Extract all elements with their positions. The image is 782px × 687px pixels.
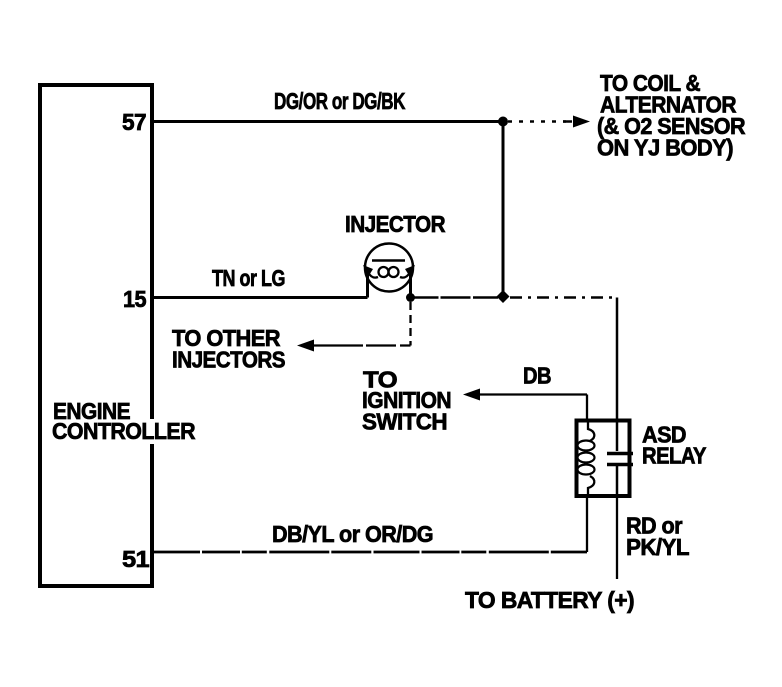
svg-text:RELAY: RELAY bbox=[642, 443, 706, 469]
svg-text:TN or LG: TN or LG bbox=[212, 265, 285, 291]
svg-text:DB/YL or OR/DG: DB/YL or OR/DG bbox=[272, 521, 433, 547]
relay contact bbox=[616, 420, 619, 451]
svg-text:DG/OR or DG/BK: DG/OR or DG/BK bbox=[274, 88, 406, 114]
wire dashed to coil arrow bbox=[508, 120, 566, 123]
svg-text:DB: DB bbox=[523, 363, 551, 389]
wire vertical drop to relay bbox=[616, 298, 619, 421]
injector coil bbox=[366, 268, 378, 278]
svg-text:INJECTORS: INJECTORS bbox=[172, 347, 285, 373]
engine controller label bbox=[148, 419, 198, 444]
wire relay contact to battery bbox=[616, 497, 618, 579]
svg-text:PK/YL: PK/YL bbox=[626, 534, 690, 560]
wire injector to junction bbox=[411, 296, 504, 299]
wire dashed junction to relay drop bbox=[510, 296, 617, 299]
wire relay coil to pin51 wire bbox=[586, 497, 588, 552]
wire pin57 horizontal bbox=[154, 120, 503, 123]
svg-text:51: 51 bbox=[122, 546, 150, 572]
arrow to ignition switch bbox=[463, 389, 480, 401]
arrow to coil bbox=[573, 116, 590, 128]
svg-text:57: 57 bbox=[122, 109, 146, 135]
node junction 57-wire bbox=[498, 117, 508, 127]
injector left lead bbox=[366, 269, 369, 298]
node junction injector bbox=[406, 293, 415, 302]
node junction 15-wire bbox=[497, 290, 510, 303]
wire vertical from 57-wire down bbox=[502, 122, 505, 297]
wire DB vertical to relay bbox=[586, 395, 588, 421]
wire DB horizontal bbox=[478, 393, 587, 395]
svg-text:INJECTOR: INJECTOR bbox=[345, 211, 446, 237]
svg-text:CONTROLLER: CONTROLLER bbox=[52, 418, 196, 444]
svg-text:ON YJ BODY): ON YJ BODY) bbox=[597, 135, 733, 161]
wire branch to other injectors bbox=[409, 302, 411, 346]
wire pin15 horizontal bbox=[154, 296, 368, 299]
injector right lead bbox=[409, 269, 412, 298]
relay K1 ASD box bbox=[577, 421, 630, 497]
svg-text:15: 15 bbox=[123, 286, 147, 312]
relay coil bbox=[588, 420, 594, 441]
arrow to other injectors bbox=[297, 340, 314, 352]
svg-text:TO BATTERY (+): TO BATTERY (+) bbox=[465, 587, 634, 613]
svg-text:SWITCH: SWITCH bbox=[362, 409, 447, 435]
engine controller box bbox=[40, 85, 152, 586]
injector L1 circle bbox=[365, 244, 413, 292]
injector inner bar bbox=[372, 259, 405, 262]
wire pin51 horizontal bbox=[154, 551, 587, 554]
